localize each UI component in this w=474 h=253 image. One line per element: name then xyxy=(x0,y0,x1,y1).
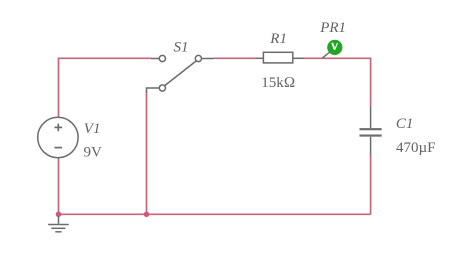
svg-text:PR1: PR1 xyxy=(319,20,346,36)
svg-text:9V: 9V xyxy=(84,145,103,161)
svg-text:S1: S1 xyxy=(174,39,189,55)
svg-text:470µF: 470µF xyxy=(396,140,436,156)
svg-text:C1: C1 xyxy=(396,116,414,132)
svg-text:R1: R1 xyxy=(269,31,287,47)
svg-text:15kΩ: 15kΩ xyxy=(261,75,295,91)
svg-text:V1: V1 xyxy=(84,121,101,137)
